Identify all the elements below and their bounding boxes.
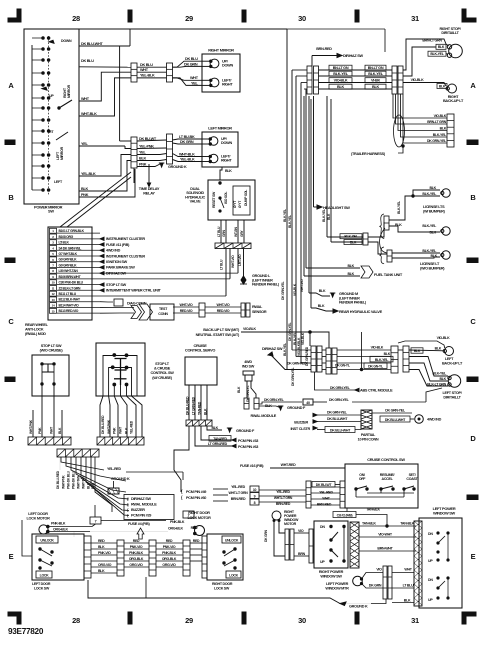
- svg-text:GROUND K: GROUND K: [111, 477, 130, 481]
- svg-text:VALVE: VALVE: [190, 200, 201, 204]
- svg-text:DN: DN: [428, 578, 433, 582]
- svg-text:CRUISE CONTROL SW: CRUISE CONTROL SW: [367, 457, 405, 462]
- svg-text:BLK: BLK: [429, 231, 436, 235]
- svg-text:C: C: [8, 317, 14, 326]
- svg-text:IND SW: IND SW: [242, 365, 255, 369]
- svg-text:RIGHT POWER: RIGHT POWER: [319, 570, 344, 574]
- svg-text:D: D: [8, 434, 14, 443]
- svg-text:(RWAL) MOD: (RWAL) MOD: [25, 332, 46, 336]
- svg-text:B108 ORG: B108 ORG: [59, 235, 74, 239]
- svg-text:DUMP SOL: DUMP SOL: [244, 189, 248, 206]
- svg-text:ORG-BLK: ORG-BLK: [129, 557, 144, 561]
- svg-text:DK BLU-RED: DK BLU-RED: [101, 415, 105, 434]
- svg-text:MIRROR: MIRROR: [67, 84, 71, 98]
- svg-text:LT BLU: LT BLU: [403, 584, 415, 588]
- svg-text:BLK-YEL: BLK-YEL: [368, 72, 383, 76]
- svg-text:SENSOR: SENSOR: [252, 310, 267, 314]
- svg-text:PNK-BLK: PNK-BLK: [162, 551, 177, 555]
- svg-text:B101 LT GRN-BLK: B101 LT GRN-BLK: [59, 229, 85, 233]
- svg-text:30: 30: [298, 616, 306, 625]
- svg-text:PNK-VIO: PNK-VIO: [98, 551, 111, 555]
- svg-text:30: 30: [298, 14, 306, 23]
- svg-text:MIRROR: MIRROR: [60, 146, 64, 160]
- svg-text:ORG-VIO: ORG-VIO: [98, 563, 112, 567]
- svg-text:BLK: BLK: [237, 386, 241, 393]
- svg-text:DK GRN-YEL: DK GRN-YEL: [330, 386, 351, 390]
- svg-text:BLK-YEL: BLK-YEL: [422, 224, 437, 228]
- svg-text:GROUND F: GROUND F: [236, 429, 255, 433]
- svg-text:BRN-WHT: BRN-WHT: [377, 547, 393, 551]
- svg-text:REAR WHEEL: REAR WHEEL: [25, 323, 49, 327]
- svg-text:FUSE #16 (F/B): FUSE #16 (F/B): [240, 464, 264, 468]
- svg-text:WINDOW SW: WINDOW SW: [433, 511, 456, 516]
- svg-text:DN: DN: [428, 532, 433, 536]
- svg-text:GRN: GRN: [222, 229, 226, 237]
- svg-text:ORG-VIO: ORG-VIO: [162, 563, 176, 567]
- svg-text:BLK: BLK: [347, 272, 354, 276]
- svg-text:BLK: BLK: [384, 352, 391, 356]
- svg-text:PNK-BLK: PNK-BLK: [170, 520, 185, 524]
- svg-text:DIR/HAZ SW: DIR/HAZ SW: [343, 54, 363, 58]
- svg-text:28: 28: [72, 616, 80, 625]
- svg-text:YEL-RED: YEL-RED: [276, 490, 290, 494]
- svg-text:ANTI-LOCK: ANTI-LOCK: [25, 328, 44, 332]
- svg-text:WHT-BLK: WHT-BLK: [81, 112, 97, 116]
- svg-text:YEL-PNK: YEL-PNK: [139, 144, 154, 148]
- svg-text:BLK: BLK: [350, 240, 357, 244]
- svg-text:BLK-YEL: BLK-YEL: [422, 249, 437, 253]
- svg-text:LT BLU: LT BLU: [220, 259, 224, 270]
- svg-text:DK BLU: DK BLU: [81, 59, 94, 63]
- svg-text:TAN-RED: TAN-RED: [213, 437, 227, 441]
- svg-text:BLK-YEL: BLK-YEL: [283, 343, 287, 356]
- svg-text:BLK-YEL: BLK-YEL: [322, 209, 326, 222]
- svg-text:BLK-LT GRN: BLK-LT GRN: [427, 382, 447, 386]
- svg-text:BLK-YEL: BLK-YEL: [430, 52, 444, 56]
- svg-text:BLK: BLK: [98, 545, 105, 549]
- svg-text:WHT-VIO: WHT-VIO: [231, 255, 235, 268]
- svg-text:RWAL MODULE: RWAL MODULE: [131, 503, 157, 507]
- svg-text:7: 7: [95, 520, 97, 524]
- svg-text:DIR/HAZ SW: DIR/HAZ SW: [106, 272, 126, 276]
- svg-text:BLK: BLK: [439, 84, 446, 88]
- svg-text:LOCK SW: LOCK SW: [214, 587, 230, 591]
- svg-text:BLK: BLK: [438, 45, 445, 49]
- svg-text:WHT: WHT: [140, 68, 149, 72]
- svg-text:BLK: BLK: [404, 599, 411, 603]
- svg-text:VIO-BLK: VIO-BLK: [371, 346, 384, 350]
- svg-text:DN: DN: [320, 525, 325, 529]
- svg-text:VIO: VIO: [298, 529, 304, 533]
- svg-text:WHT-LT GRN: WHT-LT GRN: [229, 491, 249, 495]
- svg-text:FENDER PANEL): FENDER PANEL): [339, 301, 367, 305]
- svg-text:(W/ CRUISE): (W/ CRUISE): [152, 376, 173, 380]
- svg-text:PNK: PNK: [81, 193, 89, 197]
- svg-text:VIO-BLK: VIO-BLK: [243, 327, 256, 331]
- svg-text:PCM PIN #49: PCM PIN #49: [186, 490, 206, 494]
- svg-text:GROUND K: GROUND K: [168, 165, 187, 169]
- svg-text:BLK: BLK: [430, 254, 437, 258]
- svg-text:WHT-VIO: WHT-VIO: [216, 303, 230, 307]
- svg-text:WHT-VIO: WHT-VIO: [179, 303, 193, 307]
- svg-text:LEFT: LEFT: [445, 357, 454, 361]
- svg-text:FUSE #4 (F/B): FUSE #4 (F/B): [128, 522, 150, 526]
- svg-text:DK GN-YL: DK GN-YL: [368, 364, 384, 368]
- svg-text:BLK-YEL: BLK-YEL: [344, 235, 358, 239]
- svg-text:BRN: BRN: [298, 552, 306, 556]
- svg-text:RED: RED: [166, 539, 173, 543]
- svg-text:LEFT: LEFT: [54, 180, 63, 184]
- svg-text:WHT-VIO: WHT-VIO: [300, 279, 304, 292]
- svg-text:BLK: BLK: [435, 347, 442, 351]
- svg-text:40: 40: [306, 401, 310, 405]
- svg-text:B106 BRN-WHT: B106 BRN-WHT: [59, 275, 82, 279]
- svg-text:PNK-DK BLU: PNK-DK BLU: [71, 470, 75, 489]
- svg-text:Ø YT: Ø YT: [233, 200, 237, 208]
- svg-text:BLK: BLK: [319, 289, 326, 293]
- svg-text:DK BLU-RED: DK BLU-RED: [185, 396, 189, 415]
- svg-text:B112 BLK-WHT: B112 BLK-WHT: [59, 298, 82, 302]
- svg-text:ORG-BLK: ORG-BLK: [53, 527, 68, 531]
- svg-text:29: 29: [185, 616, 193, 625]
- svg-text:BLK: BLK: [318, 304, 325, 308]
- svg-text:LOCK MOTOR: LOCK MOTOR: [26, 517, 50, 521]
- svg-text:WINDOW MTR: WINDOW MTR: [325, 587, 349, 591]
- svg-text:A: A: [8, 81, 14, 90]
- svg-text:B114 WHT-VIO: B114 WHT-VIO: [59, 303, 80, 307]
- svg-text:LRT-VIO: LRT-VIO: [238, 254, 242, 266]
- svg-text:C30 PNK-DK BLU: C30 PNK-DK BLU: [59, 281, 84, 285]
- svg-text:WHT: WHT: [190, 76, 199, 80]
- svg-text:DOWN: DOWN: [61, 39, 72, 43]
- svg-text:LEFT MIRROR: LEFT MIRROR: [208, 126, 232, 131]
- svg-text:(W/O CRUISE): (W/O CRUISE): [40, 348, 64, 353]
- svg-text:INTERMITTENT WIPER CTRL UNIT: INTERMITTENT WIPER CTRL UNIT: [106, 289, 161, 293]
- svg-text:RELAY: RELAY: [143, 191, 155, 196]
- svg-text:BLK: BLK: [81, 187, 89, 191]
- svg-text:PCM PIN #33: PCM PIN #33: [238, 439, 258, 443]
- svg-text:VIO-BLK: VIO-BLK: [334, 79, 348, 83]
- svg-text:4WD IND: 4WD IND: [427, 418, 442, 422]
- svg-text:DIR/TAILLT: DIR/TAILLT: [443, 396, 461, 400]
- svg-text:WHT: WHT: [119, 426, 123, 434]
- svg-text:TAN-BLK: TAN-BLK: [400, 522, 414, 526]
- svg-text:DIR/HAZ SW: DIR/HAZ SW: [131, 497, 151, 501]
- svg-text:DOWN: DOWN: [221, 141, 232, 145]
- svg-text:YEL-BLK: YEL-BLK: [140, 74, 155, 78]
- svg-text:REAR HYDRAULIC VALVE: REAR HYDRAULIC VALVE: [339, 309, 383, 314]
- svg-text:28: 28: [72, 14, 80, 23]
- svg-text:YEL-RED: YEL-RED: [319, 491, 333, 495]
- svg-text:29: 29: [185, 14, 193, 23]
- svg-text:NEUTRAL START SW (A/T): NEUTRAL START SW (A/T): [196, 332, 240, 337]
- svg-text:BLK-YEL: BLK-YEL: [422, 192, 437, 196]
- svg-text:PNK-DK BLU: PNK-DK BLU: [66, 470, 70, 489]
- svg-text:BRN-LT GRN: BRN-LT GRN: [427, 120, 446, 124]
- svg-text:ORG-BLK: ORG-BLK: [162, 557, 177, 561]
- svg-text:BLK: BLK: [98, 569, 105, 573]
- svg-text:BLK: BLK: [327, 213, 331, 220]
- svg-text:STOP LT SW: STOP LT SW: [106, 283, 127, 287]
- svg-text:BLK: BLK: [58, 427, 62, 434]
- svg-text:BLK: BLK: [429, 186, 436, 190]
- svg-text:E: E: [471, 552, 476, 561]
- svg-text:Ø YT: Ø YT: [238, 200, 242, 208]
- svg-text:MOTOR: MOTOR: [284, 522, 297, 526]
- svg-text:BACK-UP LT: BACK-UP LT: [442, 362, 463, 366]
- svg-text:4WD: 4WD: [244, 360, 252, 364]
- svg-text:(W/O BUMPER): (W/O BUMPER): [420, 267, 445, 271]
- svg-text:DK GRN-YEL: DK GRN-YEL: [327, 411, 348, 415]
- svg-text:DK GRN-YEL: DK GRN-YEL: [385, 409, 406, 413]
- svg-text:WINDOW SW: WINDOW SW: [320, 575, 342, 579]
- svg-text:VIO: VIO: [376, 568, 382, 572]
- svg-text:YEL-BLK: YEL-BLK: [81, 172, 96, 176]
- svg-text:FENDER PANEL): FENDER PANEL): [252, 283, 280, 287]
- svg-text:BLK: BLK: [414, 349, 421, 353]
- svg-text:RIGHT: RIGHT: [221, 159, 232, 163]
- svg-text:BLK-YEL: BLK-YEL: [333, 72, 348, 76]
- svg-text:VIO-BLK: VIO-BLK: [437, 336, 450, 340]
- svg-text:DK BLU: DK BLU: [140, 63, 153, 67]
- svg-text:GROUND M: GROUND M: [339, 292, 358, 296]
- svg-text:Z2 BLK-LT GRN: Z2 BLK-LT GRN: [59, 286, 82, 290]
- svg-text:B: B: [470, 193, 476, 202]
- svg-text:VI-BK: VI-BK: [371, 79, 380, 83]
- svg-text:E: E: [9, 552, 14, 561]
- svg-text:VIO-BLK: VIO-BLK: [301, 332, 305, 345]
- svg-text:WHT-PNK: WHT-PNK: [61, 475, 65, 489]
- svg-text:LT BLU: LT BLU: [217, 226, 221, 237]
- svg-text:DK BU-WT: DK BU-WT: [316, 483, 333, 487]
- svg-text:BUZZER: BUZZER: [131, 508, 145, 512]
- svg-text:LT GRN-RED: LT GRN-RED: [191, 396, 195, 415]
- svg-text:DK GN-YL: DK GN-YL: [335, 364, 351, 368]
- svg-text:DK BLU-WHT: DK BLU-WHT: [81, 42, 103, 46]
- svg-text:DK GRN-YEL: DK GRN-YEL: [291, 367, 295, 386]
- svg-text:INST CLSTR: INST CLSTR: [290, 427, 310, 431]
- svg-text:ORG-BLK: ORG-BLK: [168, 527, 183, 531]
- svg-text:WHT-LT GRN: WHT-LT GRN: [274, 496, 293, 500]
- svg-text:LEFT DOOR: LEFT DOOR: [28, 512, 48, 516]
- svg-text:S4 DK GRN-YEL: S4 DK GRN-YEL: [59, 246, 82, 250]
- svg-text:TAN-BLK: TAN-BLK: [366, 508, 380, 512]
- svg-text:C8 #2 (F/B): C8 #2 (F/B): [337, 513, 354, 517]
- svg-text:BLK: BLK: [439, 377, 446, 381]
- svg-text:LT GRN-RED: LT GRN-RED: [208, 442, 228, 446]
- svg-text:(W/ BUMPER): (W/ BUMPER): [423, 210, 446, 214]
- svg-text:SW: SW: [48, 209, 54, 214]
- svg-text:31: 31: [411, 14, 419, 23]
- svg-text:PCM PIN #63: PCM PIN #63: [238, 445, 258, 449]
- svg-text:PNK: PNK: [139, 162, 147, 166]
- svg-text:ISO SOL: ISO SOL: [224, 191, 228, 204]
- svg-text:LOCK SW: LOCK SW: [34, 587, 50, 591]
- svg-text:PNK-BLK: PNK-BLK: [51, 522, 66, 526]
- svg-text:YEL: YEL: [81, 142, 89, 146]
- svg-text:DIAG CONN: DIAG CONN: [127, 302, 147, 306]
- svg-text:YEL-RED: YEL-RED: [130, 420, 134, 434]
- svg-text:INSTRUMENT CLUSTER: INSTRUMENT CLUSTER: [106, 254, 145, 258]
- svg-text:DK BLU-WHT: DK BLU-WHT: [327, 417, 348, 421]
- svg-text:BLK: BLK: [225, 169, 232, 173]
- svg-text:YEL-RED: YEL-RED: [231, 485, 245, 489]
- svg-text:RIGHT: RIGHT: [222, 83, 233, 87]
- svg-text:10: 10: [253, 488, 257, 492]
- svg-text:BRN-RED: BRN-RED: [317, 503, 332, 507]
- svg-text:BN-LT GN: BN-LT GN: [333, 66, 349, 70]
- svg-text:RED-VIO: RED-VIO: [180, 309, 193, 313]
- svg-text:G9 GRY-BLK: G9 GRY-BLK: [59, 258, 78, 262]
- svg-text:WHT: WHT: [81, 97, 90, 101]
- svg-text:LICENSE LTS: LICENSE LTS: [423, 205, 445, 209]
- svg-text:RED-VIO: RED-VIO: [217, 309, 230, 313]
- svg-text:(TRAILER HARNESS): (TRAILER HARNESS): [351, 152, 386, 156]
- svg-text:C: C: [470, 317, 476, 326]
- svg-text:CONTROL SERVO: CONTROL SERVO: [185, 348, 215, 353]
- svg-text:RIGHT DOOR: RIGHT DOOR: [188, 511, 210, 515]
- svg-text:DK BLU: DK BLU: [185, 57, 198, 61]
- svg-text:DK GRN-YEL: DK GRN-YEL: [329, 398, 350, 402]
- svg-text:DIR/HAZ SW: DIR/HAZ SW: [262, 346, 283, 351]
- svg-text:BRN-RED: BRN-RED: [316, 47, 332, 51]
- svg-text:PCM PIN #60: PCM PIN #60: [186, 496, 206, 500]
- svg-text:PNK-VIO: PNK-VIO: [130, 545, 143, 549]
- svg-text:BRN-RED: BRN-RED: [231, 497, 246, 501]
- svg-text:DK GRN-YEL: DK GRN-YEL: [264, 398, 285, 402]
- svg-text:WHT-TAN: WHT-TAN: [76, 475, 80, 489]
- svg-text:93E77820: 93E77820: [8, 627, 44, 636]
- svg-text:RED: RED: [191, 526, 198, 530]
- svg-text:BLK: BLK: [337, 85, 345, 89]
- svg-text:10 PIN CONN: 10 PIN CONN: [358, 438, 379, 442]
- svg-text:DOWN: DOWN: [222, 64, 233, 68]
- svg-text:LICENSE LT: LICENSE LT: [420, 262, 440, 266]
- svg-text:VIO-BLK: VIO-BLK: [293, 283, 297, 296]
- svg-text:PNK: PNK: [38, 427, 42, 434]
- svg-text:BACK-UP LT: BACK-UP LT: [443, 99, 464, 103]
- svg-text:UNLOCK: UNLOCK: [40, 539, 54, 543]
- svg-text:BLK-YEL: BLK-YEL: [432, 372, 447, 376]
- svg-text:CONTROL SW: CONTROL SW: [150, 371, 174, 375]
- svg-text:4WD IND: 4WD IND: [106, 249, 121, 253]
- svg-text:RWAL: RWAL: [252, 305, 263, 309]
- svg-text:UNLOCK: UNLOCK: [225, 539, 239, 543]
- svg-text:& CRUISE: & CRUISE: [154, 367, 171, 371]
- svg-text:DK GRN-YEL: DK GRN-YEL: [427, 139, 447, 143]
- svg-text:31: 31: [411, 616, 419, 625]
- svg-text:BLK: BLK: [203, 408, 207, 415]
- svg-text:G7 WHT-BLK: G7 WHT-BLK: [59, 252, 78, 256]
- svg-text:VIO-WHT: VIO-WHT: [378, 533, 393, 537]
- svg-text:B111 LT BLU: B111 LT BLU: [59, 292, 77, 296]
- svg-text:L50 WHT-TAN: L50 WHT-TAN: [59, 269, 79, 273]
- svg-text:BN-LT GN: BN-LT GN: [368, 66, 384, 70]
- svg-text:LEFT POWER: LEFT POWER: [326, 582, 349, 586]
- svg-text:GROUND F: GROUND F: [287, 406, 306, 410]
- svg-text:PARTIAL: PARTIAL: [361, 433, 376, 437]
- svg-text:DIR/TAILLT: DIR/TAILLT: [441, 31, 459, 35]
- svg-text:CONN: CONN: [158, 312, 168, 316]
- svg-text:DK BLU-RED: DK BLU-RED: [56, 470, 60, 489]
- svg-text:INSTRUMENT CLUSTER: INSTRUMENT CLUSTER: [106, 237, 145, 241]
- svg-text:RIGHT DOOR: RIGHT DOOR: [212, 582, 233, 586]
- svg-text:B: B: [8, 193, 14, 202]
- svg-text:RIGHT MIRROR: RIGHT MIRROR: [208, 48, 234, 53]
- svg-text:TAN-RED: TAN-RED: [197, 401, 201, 415]
- svg-text:RESET SW: RESET SW: [212, 191, 216, 208]
- svg-text:TAN-BLK: TAN-BLK: [362, 522, 376, 526]
- svg-text:A: A: [470, 81, 476, 90]
- svg-text:BLK: BLK: [347, 264, 354, 268]
- svg-text:BLK-YEL: BLK-YEL: [375, 358, 389, 362]
- svg-text:FUEL TANK UNIT: FUEL TANK UNIT: [374, 272, 403, 277]
- svg-text:LOCK MOTOR: LOCK MOTOR: [187, 516, 211, 520]
- svg-text:WHT: WHT: [322, 497, 330, 501]
- svg-text:PNK-BLK: PNK-BLK: [129, 551, 144, 555]
- svg-text:BLK: BLK: [125, 427, 129, 434]
- svg-text:TEST: TEST: [159, 307, 168, 311]
- svg-text:VIO-BLK: VIO-BLK: [411, 78, 424, 82]
- svg-text:WHT-BLK: WHT-BLK: [179, 152, 195, 156]
- svg-text:RED: RED: [193, 539, 200, 543]
- svg-text:BLK: BLK: [372, 85, 380, 89]
- svg-text:BLK-YEL: BLK-YEL: [283, 209, 287, 222]
- svg-text:BLK-YEL: BLK-YEL: [288, 215, 292, 228]
- svg-text:BLK: BLK: [211, 426, 218, 430]
- svg-text:BLK: BLK: [139, 156, 147, 160]
- svg-text:RED: RED: [133, 539, 140, 543]
- svg-text:DK BLU-WHT: DK BLU-WHT: [385, 418, 406, 422]
- svg-text:RED: RED: [98, 539, 105, 543]
- svg-text:B113 RED-VIO: B113 RED-VIO: [59, 309, 79, 313]
- svg-text:YEL-RED: YEL-RED: [107, 467, 121, 471]
- svg-text:LOCK: LOCK: [40, 574, 50, 578]
- svg-text:LEFT DOOR: LEFT DOOR: [32, 582, 51, 586]
- svg-text:WHT-RED: WHT-RED: [281, 463, 296, 467]
- svg-text:VIO-BLK: VIO-BLK: [434, 114, 447, 118]
- svg-text:COAST: COAST: [406, 477, 418, 481]
- svg-text:DK GRN: DK GRN: [180, 140, 194, 144]
- svg-text:HEADLIGHT SW: HEADLIGHT SW: [323, 205, 350, 210]
- svg-text:GROUND L: GROUND L: [252, 274, 271, 278]
- svg-text:WHT-PNK: WHT-PNK: [107, 419, 111, 434]
- svg-text:STOP LT: STOP LT: [155, 362, 170, 366]
- svg-text:YEL-BLK: YEL-BLK: [180, 158, 195, 162]
- svg-text:PARK BRAKE SW: PARK BRAKE SW: [106, 266, 135, 270]
- svg-text:DK GRN-RED: DK GRN-RED: [287, 362, 307, 366]
- svg-text:D: D: [470, 434, 476, 443]
- svg-text:DK GRN: DK GRN: [184, 62, 198, 66]
- svg-text:PNK: PNK: [113, 427, 117, 434]
- svg-text:DK GRN: DK GRN: [369, 584, 382, 588]
- svg-text:BLK-YEL: BLK-YEL: [397, 201, 401, 214]
- svg-text:ABS CTRL MODULE: ABS CTRL MODULE: [360, 389, 393, 393]
- svg-text:BLK: BLK: [440, 126, 447, 130]
- svg-text:WT-BN: WT-BN: [234, 226, 238, 237]
- svg-text:LOCK: LOCK: [229, 574, 239, 578]
- svg-text:YEL: YEL: [139, 150, 147, 154]
- svg-text:ORG-VIO: ORG-VIO: [129, 563, 143, 567]
- svg-text:ACCEL: ACCEL: [382, 477, 394, 481]
- svg-text:GROUND K: GROUND K: [349, 605, 368, 609]
- svg-text:FUSE #11 (F/B): FUSE #11 (F/B): [106, 243, 130, 247]
- svg-text:OFF: OFF: [359, 477, 366, 481]
- svg-text:YEL: YEL: [191, 81, 199, 85]
- svg-text:PCM PIN #29: PCM PIN #29: [131, 514, 151, 518]
- svg-text:GRY: GRY: [240, 230, 244, 237]
- svg-text:RWAL MODULE: RWAL MODULE: [251, 414, 277, 418]
